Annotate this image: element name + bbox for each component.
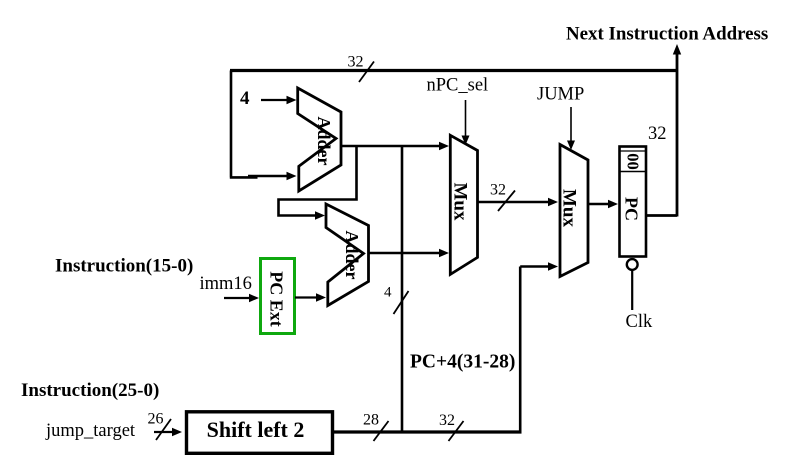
svg-text:imm16: imm16 bbox=[200, 274, 252, 294]
svg-text:Adder: Adder bbox=[314, 117, 334, 166]
bus slash 28 bbox=[374, 421, 389, 441]
wire left vertical feedback to adder lower input bbox=[230, 71, 258, 178]
mux M2 bbox=[559, 145, 589, 277]
wire shifter output (28-bit) joining jump bus bbox=[334, 430, 522, 433]
svg-text:Instruction(25-0): Instruction(25-0) bbox=[21, 380, 159, 401]
svg-text:Adder: Adder bbox=[342, 231, 362, 280]
svg-text:32: 32 bbox=[348, 54, 364, 71]
bus slash 32 (jump bus) bbox=[449, 421, 464, 441]
svg-text:JUMP: JUMP bbox=[537, 85, 584, 105]
clock bubble bbox=[627, 259, 638, 270]
svg-text:Next Instruction Address: Next Instruction Address bbox=[566, 24, 768, 45]
wire PC+4(31-28) vertical bus bbox=[401, 146, 404, 432]
wire adder2 output to Mux1 lower input bbox=[369, 252, 442, 255]
wire jump_target arrow into shifter bbox=[154, 431, 173, 433]
bus slash 26 bbox=[156, 419, 171, 440]
svg-text:Instruction(15-0): Instruction(15-0) bbox=[55, 256, 193, 277]
wire PC Ext output into adder2 lower input bbox=[295, 296, 317, 298]
mux M1 bbox=[450, 135, 478, 274]
wire jump target up into Mux2 lower input bbox=[520, 267, 550, 433]
box Shift left 2 bbox=[187, 412, 333, 454]
wire Z-shaped PC+4 tap into adder2 top input bbox=[279, 146, 357, 216]
wire Clk bbox=[631, 271, 633, 311]
svg-text:Mux: Mux bbox=[450, 183, 471, 222]
adder U2 (branch target adder) bbox=[326, 204, 369, 306]
bus slash 4 bbox=[394, 291, 409, 314]
svg-text:4: 4 bbox=[240, 88, 250, 109]
svg-text:00: 00 bbox=[624, 153, 643, 170]
wire imm16 arrow into PC Ext bbox=[224, 297, 250, 299]
wire PC output up to Next Instruction Address bbox=[646, 53, 678, 217]
svg-text:Mux: Mux bbox=[559, 189, 580, 228]
wire Mux2 output into PC bbox=[588, 203, 610, 206]
wire nPC_sel select arrow bbox=[465, 100, 467, 137]
bus slash 32 (mux1 out) bbox=[498, 191, 515, 212]
svg-text:PC+4(31-28): PC+4(31-28) bbox=[410, 352, 515, 373]
svg-text:Shift left 2: Shift left 2 bbox=[207, 417, 305, 442]
adder U1 (PC+4 adder) bbox=[298, 88, 341, 191]
svg-text:PC: PC bbox=[622, 197, 642, 221]
register PC bbox=[620, 147, 647, 257]
wire JUMP select arrow bbox=[570, 107, 572, 141]
svg-text:32: 32 bbox=[648, 124, 667, 144]
svg-text:Clk: Clk bbox=[626, 312, 653, 332]
wire top feedback bus bbox=[230, 69, 677, 72]
svg-text:4: 4 bbox=[384, 285, 392, 301]
svg-text:32: 32 bbox=[439, 412, 455, 429]
svg-text:32: 32 bbox=[490, 182, 506, 199]
svg-text:28: 28 bbox=[363, 412, 379, 429]
wire adder1 output to Mux1 top input bbox=[341, 145, 441, 148]
svg-text:PC Ext: PC Ext bbox=[267, 271, 287, 327]
wire constant-4 arrow into adder top input bbox=[261, 99, 287, 101]
PC Ext box bbox=[261, 259, 295, 334]
bus slash 32 (top) bbox=[359, 62, 374, 83]
svg-text:nPC_sel: nPC_sel bbox=[427, 76, 489, 96]
svg-text:26: 26 bbox=[148, 411, 164, 428]
svg-text:jump_target: jump_target bbox=[45, 421, 136, 441]
wire Mux1 output to Mux2 input bbox=[478, 201, 551, 204]
